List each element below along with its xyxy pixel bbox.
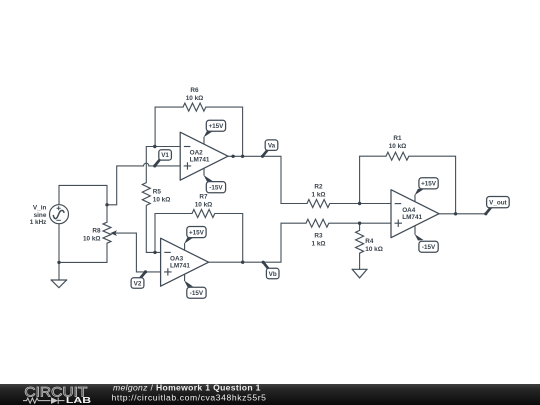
- svg-text:V_in: V_in: [33, 205, 47, 212]
- svg-text:-15V: -15V: [209, 185, 223, 192]
- svg-text:+15V: +15V: [209, 123, 225, 130]
- svg-text:1 kHz: 1 kHz: [30, 219, 47, 226]
- svg-text:R6: R6: [190, 87, 199, 94]
- svg-text:OA2: OA2: [190, 150, 204, 157]
- svg-text:+15V: +15V: [189, 229, 205, 236]
- svg-text:R2: R2: [314, 184, 323, 191]
- svg-text:1 kΩ: 1 kΩ: [311, 192, 325, 199]
- svg-text:10 kΩ: 10 kΩ: [153, 196, 171, 203]
- svg-text:10 kΩ: 10 kΩ: [389, 143, 407, 150]
- svg-text:R4: R4: [365, 238, 374, 245]
- svg-text:V_out: V_out: [489, 200, 507, 207]
- svg-text:R8: R8: [92, 227, 101, 234]
- svg-text:LM741: LM741: [190, 157, 210, 164]
- svg-text:Va: Va: [268, 143, 276, 150]
- svg-text:sine: sine: [34, 212, 47, 219]
- svg-text:-15V: -15V: [422, 244, 436, 251]
- svg-text:R5: R5: [153, 188, 162, 195]
- svg-text:V1: V1: [161, 152, 169, 159]
- svg-text:1 kΩ: 1 kΩ: [311, 240, 325, 247]
- svg-text:LM741: LM741: [402, 214, 422, 221]
- svg-text:V2: V2: [134, 280, 142, 287]
- svg-text:10 kΩ: 10 kΩ: [186, 95, 204, 102]
- svg-text:-15V: -15V: [190, 290, 204, 297]
- svg-text:R3: R3: [314, 232, 323, 239]
- svg-text:R1: R1: [393, 135, 402, 142]
- svg-text:10 kΩ: 10 kΩ: [195, 201, 213, 208]
- svg-text:melgonz / Homework 1 Question: melgonz / Homework 1 Question 1: [113, 382, 261, 392]
- svg-text:OA4: OA4: [402, 207, 416, 214]
- svg-text:10 kΩ: 10 kΩ: [365, 246, 383, 253]
- svg-text:+15V: +15V: [421, 181, 437, 188]
- svg-text:OA3: OA3: [170, 256, 184, 263]
- svg-text:http://circuitlab.com/cva348hk: http://circuitlab.com/cva348hkz55r5: [112, 393, 267, 403]
- svg-text:LM741: LM741: [170, 263, 190, 270]
- svg-text:Vb: Vb: [269, 271, 277, 278]
- svg-text:R7: R7: [199, 193, 208, 200]
- svg-text:10 kΩ: 10 kΩ: [83, 235, 101, 242]
- svg-text:LAB: LAB: [66, 396, 92, 405]
